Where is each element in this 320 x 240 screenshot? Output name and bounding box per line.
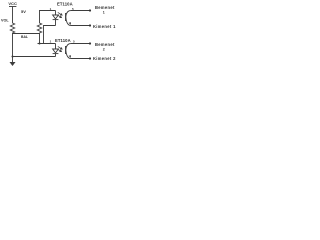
wire R1 bottom to R2 bottom bbox=[13, 33, 40, 35]
wire node to LED2 anode bbox=[38, 43, 56, 45]
Q2 emitter arrowhead bbox=[69, 55, 71, 58]
wire Q2 emitter to Kimenet 2 bbox=[71, 58, 90, 60]
svg-text:1: 1 bbox=[103, 11, 105, 15]
ground arrow bbox=[10, 62, 16, 66]
node junction at R2 bottom bbox=[39, 43, 41, 45]
svg-text:Kimenet 1: Kimenet 1 bbox=[93, 24, 116, 29]
phototransistor Q2 of U2 bbox=[66, 44, 71, 59]
resistor R1 bbox=[10, 22, 14, 34]
svg-text:5V: 5V bbox=[21, 9, 26, 14]
svg-text:VCC: VCC bbox=[8, 1, 17, 6]
node Bemenet1 pin dot bbox=[89, 9, 91, 11]
LED D2 of U2 bbox=[53, 44, 59, 57]
wire L feed to LED1 anode bbox=[40, 11, 56, 23]
node Kimenet2 pin dot bbox=[89, 57, 91, 59]
wire LED1 cathode return bbox=[44, 26, 56, 44]
wire Q1 emitter to Kimenet 1 bbox=[71, 25, 90, 27]
svg-text:VOL: VOL bbox=[1, 19, 9, 23]
Q1 emitter arrowhead bbox=[69, 22, 71, 25]
wire LED2 cathode to ground rail bbox=[13, 56, 56, 58]
wire R1 bottom down to ground junction bbox=[12, 34, 14, 63]
node Bemenet2 pin dot bbox=[89, 42, 91, 44]
svg-text:Kimenet 2: Kimenet 2 bbox=[93, 56, 116, 61]
resistor R2 bbox=[37, 22, 41, 34]
wire Q1 collector to Bemenet 1 bbox=[71, 10, 90, 12]
svg-text:2: 2 bbox=[103, 48, 105, 52]
svg-text:ET110A: ET110A bbox=[57, 2, 73, 7]
svg-text:ET110A: ET110A bbox=[55, 38, 71, 43]
node Kimenet1 pin dot bbox=[89, 24, 91, 26]
wire R2 bottom to node bbox=[39, 34, 41, 44]
phototransistor Q1 of U1 bbox=[66, 11, 71, 26]
node ground junction bbox=[12, 56, 14, 58]
power VCC bbox=[9, 7, 16, 23]
wire Q2 collector to Bemenet 2 bbox=[71, 43, 90, 45]
svg-text:Bemenet: Bemenet bbox=[95, 5, 115, 10]
LED D1 of U1 bbox=[53, 11, 59, 26]
svg-text:BAL: BAL bbox=[21, 35, 28, 39]
LED2 emission arrows bbox=[57, 46, 62, 51]
svg-text:Bemenet: Bemenet bbox=[95, 42, 115, 47]
LED1 emission arrows bbox=[57, 12, 62, 17]
